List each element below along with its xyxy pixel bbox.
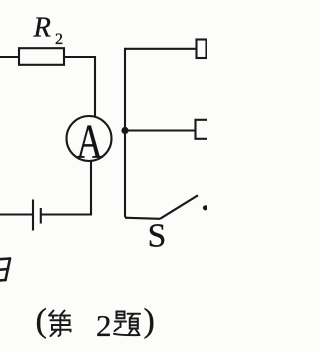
svg-text:S: S bbox=[148, 217, 167, 254]
switch S: blade bbox=[160, 195, 198, 219]
caption: glyph 题 bbox=[114, 312, 140, 336]
svg-text:(: ( bbox=[36, 303, 47, 340]
resistor R2 bbox=[19, 48, 64, 65]
wire: right vertical bus bbox=[124, 49, 126, 217]
resistor box 1 (cropped at right edge) bbox=[197, 40, 207, 59]
label R2 bbox=[33, 13, 64, 49]
battery BT1 negative plate (short thick) bbox=[40, 208, 42, 224]
wire: resistor R2 right lead, corner down to ammeter top bbox=[64, 57, 95, 117]
switch S: fixed contact dot bbox=[203, 205, 208, 210]
caption: glyph 第 bbox=[49, 311, 71, 337]
partial glyph 甲 (cropped at left edge) bbox=[0, 259, 10, 281]
wire: middle branch to resistor box 2 bbox=[125, 129, 196, 131]
svg-text:2: 2 bbox=[55, 31, 63, 48]
svg-text:R: R bbox=[33, 13, 51, 44]
switch S: hinge lead bbox=[125, 216, 160, 219]
wire: top branch to resistor box 1 bbox=[124, 48, 197, 50]
wire: left lead into resistor R2 bbox=[0, 56, 19, 58]
resistor box 2 (cropped at right edge) bbox=[196, 120, 212, 139]
wire: ammeter bottom lead down and left to battery bbox=[41, 161, 91, 215]
battery BT1 positive plate (long thin) bbox=[32, 200, 34, 231]
node junction dot bbox=[121, 127, 128, 134]
wire: battery left lead to image edge bbox=[0, 213, 33, 215]
svg-text:): ) bbox=[144, 303, 155, 340]
ammeter U1 circle bbox=[67, 116, 112, 161]
svg-text:2: 2 bbox=[96, 308, 112, 343]
svg-text:A: A bbox=[76, 115, 103, 169]
